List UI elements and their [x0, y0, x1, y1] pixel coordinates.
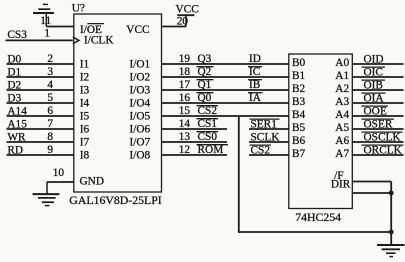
svg-text:15: 15 — [179, 105, 191, 117]
svg-text:D3: D3 — [7, 92, 21, 104]
wire down to ground — [390, 193, 392, 245]
svg-text:I/CLK: I/CLK — [84, 35, 114, 47]
ground (bottom-left, pin 10) — [33, 193, 60, 195]
svg-text:CS1: CS1 — [198, 118, 217, 130]
svg-text:OID: OID — [364, 53, 384, 65]
wire /F — [352, 181, 391, 183]
wire net OSER — [352, 128, 403, 130]
wire pin 16 net Q0 — [162, 102, 289, 104]
svg-text:DIR: DIR — [331, 178, 351, 190]
wire ground bus horizontal — [239, 231, 391, 233]
svg-text:A2: A2 — [335, 83, 349, 95]
svg-text:I/O1: I/O1 — [130, 58, 151, 70]
ground (bottom-right) — [377, 244, 405, 246]
wire net OOE — [352, 115, 403, 117]
svg-text:CS0: CS0 — [198, 131, 218, 143]
wire pin 12 net ROM — [162, 154, 228, 156]
junction ground bus — [389, 230, 394, 235]
wire pin 20 — [162, 26, 187, 28]
svg-text:I/O2: I/O2 — [130, 71, 151, 83]
svg-text:ORCLK: ORCLK — [364, 144, 403, 156]
svg-text:CS3: CS3 — [7, 29, 27, 41]
svg-text:OIC: OIC — [364, 66, 383, 78]
wire net OIA — [352, 102, 403, 104]
svg-text:OIA: OIA — [364, 92, 385, 104]
junction DIR — [389, 191, 394, 196]
svg-text:19: 19 — [179, 53, 191, 65]
svg-text:9: 9 — [47, 144, 53, 156]
wire pin 3 net D1 — [7, 76, 74, 78]
svg-text:B0: B0 — [292, 57, 306, 69]
svg-text:D1: D1 — [7, 66, 21, 78]
svg-text:WR: WR — [7, 131, 26, 143]
svg-text:VCC: VCC — [126, 24, 149, 36]
svg-text:I4: I4 — [80, 97, 90, 109]
wire pin 10 — [47, 181, 74, 183]
svg-text:I3: I3 — [80, 84, 90, 96]
svg-text:7: 7 — [47, 118, 53, 130]
svg-text:12: 12 — [179, 144, 191, 156]
wire net OID — [352, 63, 403, 65]
svg-text:I/O5: I/O5 — [130, 110, 151, 122]
wire net SER1 to pin B5 — [249, 128, 289, 130]
svg-text:A6: A6 — [335, 135, 349, 147]
svg-text:I/O7: I/O7 — [130, 136, 151, 148]
svg-text:A0: A0 — [335, 57, 349, 69]
svg-text:B6: B6 — [292, 135, 306, 147]
svg-text:5: 5 — [47, 92, 53, 104]
svg-text:A1: A1 — [335, 70, 349, 82]
svg-text:B2: B2 — [292, 83, 306, 95]
svg-text:D2: D2 — [7, 79, 21, 91]
svg-text:Q0: Q0 — [198, 92, 212, 104]
svg-text:A7: A7 — [335, 148, 349, 160]
svg-text:A5: A5 — [335, 122, 349, 134]
svg-text:Q3: Q3 — [198, 53, 212, 65]
wire pin 6 net A14 — [7, 115, 74, 117]
svg-text:CS2: CS2 — [198, 105, 218, 117]
svg-text:4: 4 — [47, 79, 53, 91]
svg-text:18: 18 — [179, 66, 191, 78]
svg-text:A15: A15 — [7, 118, 27, 130]
wire pin 18 net Q2 — [162, 76, 289, 78]
svg-text:74HC254: 74HC254 — [295, 210, 341, 224]
svg-text:B4: B4 — [292, 109, 306, 121]
wire pin 1 net CS3 — [6, 39, 73, 41]
svg-text:B7: B7 — [292, 148, 306, 160]
svg-text:I1: I1 — [80, 58, 89, 70]
wire net OIB — [352, 89, 403, 91]
svg-text:ID: ID — [249, 53, 261, 65]
svg-text:1: 1 — [44, 27, 50, 39]
wire pin 7 net A15 — [7, 128, 74, 130]
svg-text:IC: IC — [249, 66, 260, 78]
svg-text:RD: RD — [7, 144, 23, 156]
wire pin 5 net D3 — [7, 102, 74, 104]
wire net CS2 to pin B7 — [249, 154, 289, 156]
svg-text:11: 11 — [40, 15, 51, 27]
svg-text:3: 3 — [47, 66, 53, 78]
IC U? GAL16V8D-25LPI body — [74, 14, 162, 192]
svg-text:I/O4: I/O4 — [130, 97, 151, 109]
svg-text:GAL16V8D-25LPI: GAL16V8D-25LPI — [69, 193, 161, 207]
svg-text:10: 10 — [53, 167, 65, 179]
svg-text:8: 8 — [47, 131, 53, 143]
svg-text:I/O6: I/O6 — [130, 123, 151, 135]
svg-text:17: 17 — [179, 79, 191, 91]
svg-text:13: 13 — [179, 131, 191, 143]
svg-text:A4: A4 — [335, 109, 349, 121]
svg-text:I5: I5 — [80, 110, 90, 122]
svg-text:ROM: ROM — [198, 144, 224, 156]
wire pin 14 net CS1 — [162, 128, 228, 130]
svg-text:A3: A3 — [335, 96, 349, 108]
svg-text:I/O3: I/O3 — [130, 84, 151, 96]
svg-text:OSER: OSER — [364, 118, 393, 130]
svg-text:16: 16 — [179, 92, 191, 104]
wire pin 17 net Q1 — [162, 89, 289, 91]
svg-text:SER1: SER1 — [251, 118, 277, 130]
wire pin 13 net CS0 — [162, 141, 228, 143]
wire net SCLK to pin B6 — [249, 141, 289, 143]
svg-text:Q2: Q2 — [198, 66, 212, 78]
svg-text:SCLK: SCLK — [251, 131, 281, 143]
svg-text:GND: GND — [80, 175, 104, 187]
svg-text:B1: B1 — [292, 70, 305, 82]
wire pin 9 net RD — [7, 154, 74, 156]
wire pin 8 net WR — [7, 141, 74, 143]
clock input triangle pin 1 — [73, 37, 79, 44]
IC U2 74HC254 body — [289, 54, 353, 209]
svg-text:CS2: CS2 — [251, 144, 271, 156]
svg-text:14: 14 — [179, 118, 191, 130]
svg-text:B5: B5 — [292, 122, 306, 134]
wire pin 11 — [46, 26, 74, 28]
svg-text:D0: D0 — [7, 53, 21, 65]
wire DIR — [352, 192, 391, 194]
svg-text:U?: U? — [72, 2, 85, 14]
svg-text:I6: I6 — [80, 123, 90, 135]
svg-text:OSCLK: OSCLK — [364, 131, 402, 143]
svg-text:I2: I2 — [80, 71, 90, 83]
wire vertical branch from CS2 row to ground bus — [238, 116, 240, 233]
svg-text:6: 6 — [47, 105, 53, 117]
wire net OSCLK — [352, 141, 403, 143]
svg-text:VCC: VCC — [176, 3, 199, 15]
svg-text:A14: A14 — [7, 105, 27, 117]
svg-text:2: 2 — [47, 53, 53, 65]
ground (top-left, pin 11) — [33, 12, 54, 14]
wire net OIC — [352, 76, 403, 78]
svg-text:Q1: Q1 — [198, 79, 212, 91]
svg-text:IA: IA — [249, 92, 262, 104]
svg-text:OIB: OIB — [364, 79, 383, 91]
svg-text:I/O8: I/O8 — [130, 149, 151, 161]
svg-text:I7: I7 — [80, 136, 90, 148]
svg-text:IB: IB — [249, 79, 260, 91]
wire pin 4 net D2 — [7, 89, 74, 91]
svg-text:B3: B3 — [292, 96, 306, 108]
svg-text:I8: I8 — [80, 149, 90, 161]
wire pin 15 net CS2 — [162, 115, 289, 117]
wire pin 2 net D0 — [7, 63, 74, 65]
wire net ORCLK — [352, 154, 403, 156]
svg-text:20: 20 — [177, 16, 189, 28]
wire pin 19 net Q3 — [162, 63, 289, 65]
svg-text:OOE: OOE — [364, 105, 387, 117]
